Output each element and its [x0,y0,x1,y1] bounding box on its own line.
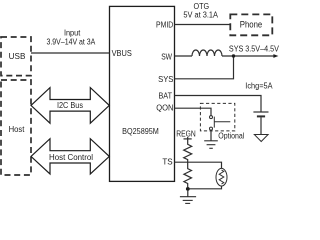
svg-text:BQ25895M: BQ25895M [122,127,159,136]
svg-text:BAT: BAT [159,90,173,100]
svg-text:PMID: PMID [156,20,173,30]
svg-text:REGN: REGN [176,130,196,139]
svg-text:Optional: Optional [218,132,244,141]
svg-text:Phone: Phone [240,19,263,29]
svg-text:I2C Bus: I2C Bus [57,101,83,110]
svg-text:SYS 3.5V–4.5V: SYS 3.5V–4.5V [229,44,280,53]
svg-text:3.9V–14V at 3A: 3.9V–14V at 3A [47,38,96,47]
svg-text:USB: USB [9,52,26,61]
svg-text:Host Control: Host Control [49,153,93,162]
svg-text:SYS: SYS [158,74,174,84]
svg-text:SW: SW [161,51,172,61]
svg-text:Host: Host [9,124,25,134]
svg-text:Ichg=5A: Ichg=5A [245,82,273,91]
svg-text:VBUS: VBUS [112,48,132,58]
svg-text:Input: Input [64,29,81,38]
svg-text:TS: TS [162,157,173,167]
svg-text:5V at 3.1A: 5V at 3.1A [183,11,218,20]
svg-text:QON: QON [156,102,173,112]
